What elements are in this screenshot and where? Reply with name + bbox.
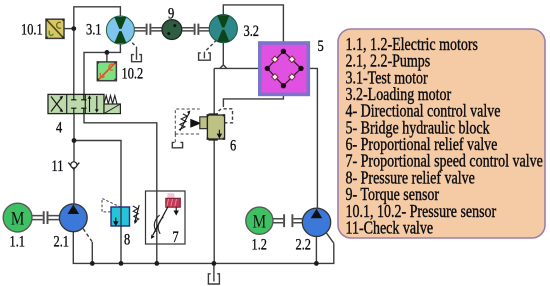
- svg-text:M: M: [11, 208, 25, 229]
- svg-text:2.1: 2.1: [54, 233, 69, 251]
- svg-text:1.2: 1.2: [252, 236, 267, 254]
- svg-text:9: 9: [168, 5, 174, 23]
- svg-text:4: 4: [56, 119, 62, 137]
- svg-text:3.1: 3.1: [86, 21, 101, 39]
- svg-text:6: 6: [230, 137, 236, 155]
- svg-text:7: 7: [172, 229, 178, 247]
- svg-text:10.2: 10.2: [122, 65, 144, 83]
- svg-text:2.2: 2.2: [296, 236, 311, 254]
- svg-text:3.2: 3.2: [244, 23, 259, 41]
- svg-text:5: 5: [318, 38, 324, 56]
- svg-text:11-Check valve: 11-Check valve: [346, 219, 434, 238]
- svg-text:8: 8: [124, 231, 130, 249]
- svg-text:1.1: 1.1: [10, 233, 25, 251]
- svg-text:M: M: [253, 211, 267, 232]
- svg-text:11: 11: [52, 158, 64, 176]
- svg-text:10.1: 10.1: [21, 21, 43, 39]
